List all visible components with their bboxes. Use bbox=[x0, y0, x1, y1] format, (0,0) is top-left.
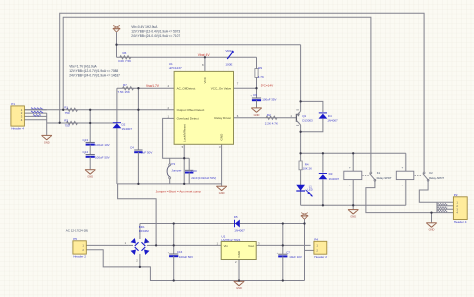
svg-text:+: + bbox=[402, 165, 404, 169]
svg-text:VCC: VCC bbox=[203, 76, 207, 83]
svg-text:1uF 50V: 1uF 50V bbox=[141, 150, 152, 154]
svg-text:Relay Driver: Relay Driver bbox=[214, 116, 231, 120]
svg-text:100uF 35V: 100uF 35V bbox=[262, 97, 276, 101]
svg-text:C4: C4 bbox=[130, 146, 134, 150]
svg-text:GND: GND bbox=[220, 133, 224, 141]
svg-text:GND: GND bbox=[429, 228, 435, 232]
svg-text:Header 4: Header 4 bbox=[454, 220, 467, 224]
svg-text:D3: D3 bbox=[329, 172, 333, 176]
svg-text:10K 2K: 10K 2K bbox=[303, 167, 313, 171]
svg-text:Jumper =Short = Aux reset comp: Jumper =Short = Aux reset comp bbox=[156, 190, 202, 194]
svg-text:LED: LED bbox=[308, 188, 313, 192]
svg-text:uPC1237: uPC1237 bbox=[169, 66, 182, 70]
svg-text:P4: P4 bbox=[314, 237, 318, 241]
svg-text:750: 750 bbox=[65, 111, 70, 115]
svg-text:24V:YBB=(24-0.7V)/1.9uA <= 146: 24V:YBB=(24-0.7V)/1.9uA <= 14637 bbox=[69, 74, 120, 78]
svg-text:P2: P2 bbox=[454, 193, 458, 197]
svg-text:Vsw1.7V: Vsw1.7V bbox=[146, 84, 160, 88]
svg-text:D5: D5 bbox=[234, 215, 238, 219]
svg-text:1N4007: 1N4007 bbox=[327, 119, 338, 123]
svg-text:24V:YBB=(24-0.4V)/1.9uA <= 710: 24V:YBB=(24-0.4V)/1.9uA <= 7107 bbox=[131, 34, 180, 38]
svg-text:GND: GND bbox=[44, 140, 50, 144]
svg-text:-: - bbox=[402, 183, 403, 187]
svg-text:+: + bbox=[349, 165, 351, 169]
svg-text:R1: R1 bbox=[64, 105, 68, 109]
svg-text:100uF 50V: 100uF 50V bbox=[95, 155, 110, 159]
svg-text:K2: K2 bbox=[429, 171, 433, 175]
svg-text:4.7K: 4.7K bbox=[258, 75, 264, 79]
svg-text:P5: P5 bbox=[73, 237, 77, 241]
svg-text:Vbe=1.7V (H)1.9uA: Vbe=1.7V (H)1.9uA bbox=[69, 64, 97, 68]
svg-text:VR2: VR2 bbox=[225, 49, 231, 53]
svg-text:Header 2: Header 2 bbox=[73, 255, 86, 259]
svg-text:Jumper: Jumper bbox=[171, 168, 181, 172]
svg-text:5*C=14V: 5*C=14V bbox=[261, 84, 274, 88]
svg-text:GND: GND bbox=[237, 251, 241, 257]
svg-text:K1: K1 bbox=[377, 171, 381, 175]
svg-text:D4: D4 bbox=[328, 114, 332, 118]
svg-text:D13003: D13003 bbox=[302, 119, 313, 123]
svg-text:Overload Detect: Overload Detect bbox=[177, 117, 199, 121]
svg-text:Output Offset Detect: Output Offset Detect bbox=[177, 108, 205, 112]
svg-text:GND: GND bbox=[350, 215, 356, 219]
svg-text:P3: P3 bbox=[171, 162, 175, 166]
svg-text:22nF(0.022uF 50V): 22nF(0.022uF 50V) bbox=[191, 176, 216, 180]
svg-text:P1: P1 bbox=[11, 102, 15, 106]
svg-text:AC 12-17(24-28): AC 12-17(24-28) bbox=[66, 229, 88, 233]
svg-text:3.0K 7.5K: 3.0K 7.5K bbox=[118, 59, 131, 63]
svg-text:750: 750 bbox=[65, 124, 70, 128]
svg-text:R7: R7 bbox=[123, 83, 127, 87]
svg-text:12V:YBB=(12-0.7V)/1.9uA <= 708: 12V:YBB=(12-0.7V)/1.9uA <= 7088 bbox=[69, 69, 118, 73]
svg-text:1N4007: 1N4007 bbox=[122, 127, 133, 131]
svg-text:C20: C20 bbox=[191, 169, 197, 173]
svg-text:R6: R6 bbox=[123, 51, 127, 55]
svg-text:7.5K 15K: 7.5K 15K bbox=[118, 90, 130, 94]
svg-text:GND: GND bbox=[254, 113, 260, 117]
svg-text:1N4007: 1N4007 bbox=[329, 177, 340, 181]
svg-text:12V:YBB=(12-0.4V)/1.9uA <= 507: 12V:YBB=(12-0.4V)/1.9uA <= 5073 bbox=[131, 30, 180, 34]
svg-text:Relay-SPDT: Relay-SPDT bbox=[429, 176, 444, 180]
svg-text:10uF 10V: 10uF 10V bbox=[289, 255, 302, 259]
svg-text:1N4007: 1N4007 bbox=[234, 229, 245, 233]
svg-text:100uF 50V: 100uF 50V bbox=[179, 255, 193, 259]
svg-text:DF04M: DF04M bbox=[139, 229, 149, 233]
svg-text:C16: C16 bbox=[177, 250, 183, 254]
svg-text:Vbat 4V: Vbat 4V bbox=[198, 53, 211, 57]
svg-text:GND: GND bbox=[219, 191, 225, 195]
svg-text:C7: C7 bbox=[286, 250, 290, 254]
svg-text:GND: GND bbox=[87, 175, 93, 179]
svg-text:Lock/MReset: Lock/MReset bbox=[183, 124, 187, 142]
svg-text:Vth=0.4V 1H2.9uA: Vth=0.4V 1H2.9uA bbox=[131, 25, 158, 29]
svg-text:Vin: Vin bbox=[224, 244, 229, 248]
svg-text:2.2K 4.7K: 2.2K 4.7K bbox=[265, 121, 278, 125]
svg-text:D2: D2 bbox=[122, 122, 126, 126]
svg-text:Header 2: Header 2 bbox=[314, 255, 327, 259]
svg-text:Header 4: Header 4 bbox=[11, 127, 24, 131]
svg-text:R9: R9 bbox=[258, 66, 262, 70]
svg-text:GND: GND bbox=[236, 286, 242, 290]
svg-text:LM7812 7824: LM7812 7824 bbox=[221, 238, 240, 242]
svg-text:R3: R3 bbox=[64, 118, 68, 122]
svg-text:R2: R2 bbox=[267, 113, 271, 117]
svg-text:Q1: Q1 bbox=[302, 114, 306, 118]
svg-text:Vout: Vout bbox=[248, 244, 254, 248]
svg-text:100uF 10V: 100uF 10V bbox=[95, 143, 110, 147]
svg-text:100E: 100E bbox=[225, 62, 232, 66]
svg-text:-: - bbox=[349, 183, 350, 187]
svg-text:C9: C9 bbox=[253, 93, 257, 97]
svg-text:AC_OffDetect: AC_OffDetect bbox=[177, 86, 196, 90]
svg-text:Relay-SPDT: Relay-SPDT bbox=[377, 176, 392, 180]
svg-text:VCC_On Valve: VCC_On Valve bbox=[211, 86, 232, 90]
